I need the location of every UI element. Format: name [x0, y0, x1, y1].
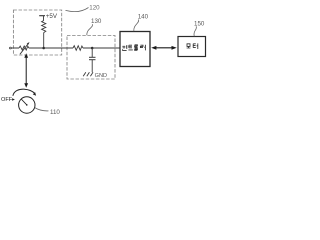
controller box U140 [120, 32, 150, 67]
wire: capacitor to ground [91, 60, 93, 72]
resistor VR (potentiometer) zigzag [19, 46, 29, 50]
svg-text:+5V: +5V [46, 13, 58, 20]
wire: node B down to capacitor [91, 48, 93, 57]
svg-text:130: 130 [91, 18, 102, 25]
motor text (Korean: mo-teo) [187, 43, 198, 49]
knob pointer [21, 99, 27, 105]
svg-text:OFF: OFF [1, 97, 13, 103]
wire: +5V bar to pull-up resistor [42, 16, 44, 21]
controller text (Korean: keon-teu-rol-leo) [122, 45, 145, 51]
potentiometer arrow [20, 43, 29, 54]
motor box 150 [178, 37, 206, 57]
resistor R2 zigzag [73, 46, 83, 51]
knob center dot [26, 104, 28, 106]
double arrow controller-motor [155, 47, 174, 49]
wire: potentiometer to node A [29, 47, 44, 49]
label 110 [35, 108, 49, 111]
knob 110 circle [19, 97, 35, 113]
wire: resistor R2 to node B [83, 47, 92, 49]
svg-text:150: 150 [194, 20, 205, 27]
svg-text:110: 110 [50, 109, 60, 116]
svg-text:120: 120 [89, 5, 100, 12]
dashed box 130 (filter block) [67, 36, 115, 80]
wire: node B to controller [92, 47, 120, 49]
rotation arc [13, 89, 35, 96]
label 150 [194, 26, 196, 36]
dashed box 120 (potentiometer block) [13, 10, 61, 55]
wire: pull-up resistor to node A [43, 33, 45, 48]
wire: node A to resistor R2 [44, 47, 73, 49]
wire: terminal to potentiometer [11, 47, 19, 49]
node B junction dot [91, 47, 94, 50]
svg-text:140: 140 [138, 13, 149, 20]
node: left input terminal [10, 47, 12, 49]
ground [83, 72, 86, 76]
svg-text:GND: GND [95, 73, 107, 79]
OFF tick arrow [12, 98, 15, 100]
label 130 [87, 24, 93, 35]
label 120 [66, 8, 89, 12]
power +5V terminal bar [39, 15, 45, 17]
resistor R1 (pull-up) zigzag [42, 21, 46, 33]
vertical double arrow (knob to potentiometer) [25, 57, 27, 85]
node A junction dot [42, 47, 45, 50]
label 140 [134, 20, 139, 32]
capacitor C1 [89, 56, 96, 58]
